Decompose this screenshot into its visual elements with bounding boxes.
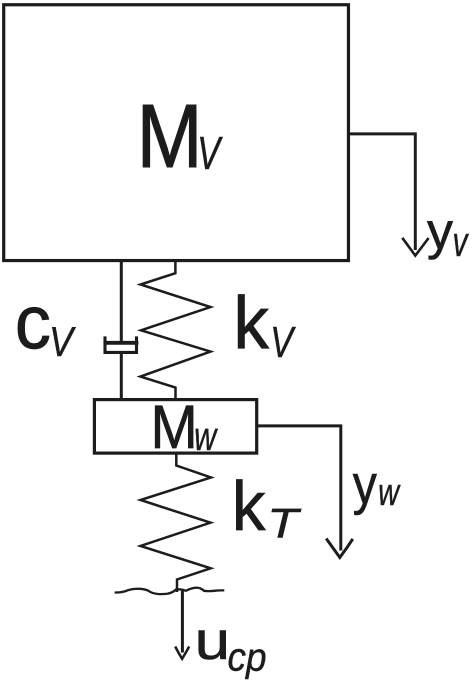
wire from M_W right edge to y_w arrow	[257, 426, 341, 551]
arrow head y_v	[402, 238, 428, 256]
svg-text:V: V	[270, 319, 296, 367]
wire from M_V right edge to y_v arrow	[350, 134, 415, 250]
damper cup c_V	[105, 336, 137, 352]
svg-text:M: M	[137, 85, 203, 186]
arrow head u_cp	[175, 647, 189, 659]
svg-text:v: v	[453, 218, 470, 265]
svg-text:V: V	[49, 319, 77, 365]
svg-text:u: u	[195, 612, 230, 671]
wire from spring k_T through ground to u_cp arrow	[181, 591, 184, 653]
svg-text:k: k	[232, 468, 266, 545]
spring k_V	[140, 261, 210, 400]
mass block M_V	[4, 5, 349, 261]
damper piston plate c_V	[104, 341, 139, 345]
damper rod lower	[120, 353, 123, 401]
svg-text:T: T	[267, 500, 302, 547]
svg-text:y: y	[353, 454, 377, 516]
ground (road surface)	[115, 588, 225, 594]
mass block M_W	[94, 400, 256, 454]
svg-text:M: M	[150, 394, 197, 461]
svg-text:w: w	[378, 472, 401, 513]
svg-text:cp: cp	[227, 635, 266, 680]
svg-text:k: k	[233, 282, 269, 365]
svg-text:y: y	[427, 202, 453, 260]
svg-text:w: w	[194, 414, 218, 459]
arrow head y_w	[326, 539, 353, 558]
damper rod upper (c_V)	[120, 261, 123, 342]
spring k_T	[141, 453, 212, 592]
svg-text:c: c	[15, 280, 51, 365]
svg-text:V: V	[197, 127, 223, 179]
